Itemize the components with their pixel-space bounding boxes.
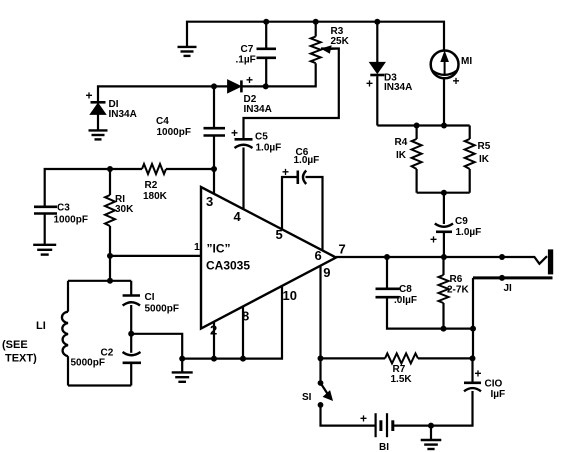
svg-text:+: + [366,77,373,91]
node: D2 cathode / C7 bottom [263,83,269,89]
node: M1 bottom [441,123,447,129]
node: C8 top on output [384,254,390,260]
capacitor C5 1.0uF (polarized) [235,138,253,141]
svg-text:1.5K: 1.5K [391,374,413,385]
svg-text:1.0µF: 1.0µF [294,155,320,166]
ground (below C3) [33,245,56,255]
diode D3 1N34A (points down) [370,63,385,73]
node: pin8 on rail [240,356,246,362]
svg-text:IN34A: IN34A [244,104,272,115]
wire: R1 top lead [109,169,111,195]
wire: pin 9 down to switch [319,266,321,381]
capacitor C1 5000pF [123,294,140,297]
wire: R4R5 top rail [377,124,469,126]
wire: R5 leads [469,126,471,140]
wire: tank bottom [68,384,131,386]
svg-text:4: 4 [234,209,242,224]
svg-text:TEXT): TEXT) [5,353,37,365]
svg-text:1.0µF: 1.0µF [456,227,482,238]
wire: C2 bottom lead [130,364,132,386]
svg-text:R2: R2 [145,180,158,191]
wire: R2 rail with C3 drop [45,169,142,206]
wire: C6 right to pin 6 [306,177,323,251]
wire: D3 cathode to R4R5 rail [376,76,378,125]
node: C4 bottom / R2 / pin3 [211,166,217,172]
capacitor C4 1000pF plates [204,127,226,130]
node: D3/top rail [374,19,380,25]
node: battery ground tap [428,423,434,429]
capacitor C9 1.0uF (polarized) [435,224,453,227]
svg-text:+: + [282,165,289,179]
wire: C4 bottom to pin 3 [213,136,215,194]
wire: jack sleeve heavy lead [473,276,553,279]
svg-text:1000pF: 1000pF [157,127,191,138]
node: C7/top rail [263,19,269,25]
svg-text:25K: 25K [331,36,350,47]
node: R4 top [414,123,420,129]
wire: R7 right lead [418,357,473,359]
wire: R6 bottom lead [442,303,444,329]
svg-text:2: 2 [210,323,217,338]
wire: R7 left lead from pin9 line [321,357,386,359]
svg-text:R5: R5 [478,141,491,152]
svg-text:SI: SI [302,392,312,403]
resistor R6 2.7K [439,275,449,303]
svg-text:+: + [430,233,437,247]
svg-text:9: 9 [323,265,330,280]
wire: jack sleeve drop [472,278,474,359]
wire: tank tap to ground rail [131,334,182,359]
resistor R1 30K [105,195,115,226]
node: tank top tap [107,278,113,284]
svg-text:”IC”: ”IC” [207,242,231,256]
svg-text:IK: IK [396,150,407,161]
svg-text:CI: CI [145,292,155,303]
resistor R4 1K [412,139,422,169]
node: C1/C2 junction [128,331,134,337]
wire: C5 to pin 4 [242,148,244,210]
svg-text:C5: C5 [255,132,268,143]
wire: C9 bottom lead [443,232,445,257]
wire: C9 top lead [443,193,445,224]
resistor R5 1K [465,139,475,169]
node: sleeve near jack [499,275,505,281]
node: R1 bottom / pin1 [107,253,113,259]
node: R7 left / pin9 [318,355,324,361]
svg-text:IK: IK [479,154,490,165]
svg-text:3: 3 [206,194,213,209]
svg-text:7: 7 [339,242,346,257]
capacitor C7 .1uF plates [257,47,277,50]
svg-text:1: 1 [194,241,200,253]
svg-text:.0IµF: .0IµF [394,295,417,306]
svg-text:1.0µF: 1.0µF [256,143,282,154]
capacitor C2 5000pF [123,352,141,355]
wire: pin 8 lead [242,307,244,359]
wire: L1 top lead [67,281,69,312]
svg-text:JI: JI [504,283,513,294]
svg-text:CA3035: CA3035 [206,259,250,273]
resistor R2 180K [142,164,166,174]
capacitor C10 1uF (polarized) [464,381,481,384]
node: output near jack [499,254,505,260]
svg-text:2-7K: 2-7K [447,285,469,296]
resistor R3 wiper arrow [322,46,331,53]
ground (below D1) [89,130,108,139]
op-amp U1 CA3035 triangle [201,187,336,329]
diode D1 1N34A (points up, cathode bar top) [91,101,106,104]
ground (battery rail) [421,440,442,449]
svg-text:C8: C8 [399,284,412,295]
wire: C7 bottom lead [265,59,267,87]
wire: M1 bottom lead [443,78,445,126]
svg-text:C4: C4 [156,116,169,127]
node: R3/top rail [313,19,319,25]
wire: D2 cathode to R3 bottom [243,63,316,86]
diode D2 1N34A (points right) [228,80,241,92]
node: R7 right / C10 top [470,355,476,361]
wire: R4 leads [416,126,418,140]
resistor R3 25K (pot body) [311,37,321,64]
node: pin2 on rail [211,356,217,362]
svg-text:+: + [453,74,460,88]
wire: L1 bottom lead [67,356,69,385]
svg-text:5: 5 [276,227,283,242]
svg-text:R4: R4 [395,137,408,148]
svg-text:BI: BI [379,442,389,452]
svg-text:C9: C9 [455,216,468,227]
svg-text:LI: LI [36,320,46,332]
svg-text:+: + [360,412,367,426]
ground (IC bottom rail) [172,372,193,381]
svg-text:+: + [246,73,253,87]
wire: pin 1 lead [110,255,201,257]
wire: battery to C10 bottom [394,391,473,426]
wire: C8 bottom to lower rail [387,298,473,329]
capacitor C8 .01uF plates [376,287,400,290]
node: C9/R6 on output [441,254,447,260]
svg-text:5000pF: 5000pF [71,358,105,369]
svg-text:+: + [231,126,238,140]
wire: IC bottom rail pins 2,8,10 [182,286,282,358]
svg-text:IN34A: IN34A [384,82,412,93]
wire: R3 wiper to C5 [244,49,339,139]
switch S1 [318,380,324,386]
wire: D1 to D2 anode segment [98,86,228,101]
wire: top supply rail from ground to meter [187,22,444,51]
svg-text:C7: C7 [241,44,254,55]
node: C4 top / D1-D2 [211,83,217,89]
meter M1 [431,51,459,79]
inductor L1 [62,312,68,357]
ground (top rail) [178,47,197,56]
svg-text:5000pF: 5000pF [145,304,179,315]
svg-text:C3: C3 [57,203,70,214]
node: lower rail corner [470,326,476,332]
wire: switch to battery bottom rail [321,408,375,426]
svg-text:180K: 180K [143,191,168,202]
svg-text:+: + [475,367,482,381]
wire: R4R5 bottom rail [417,192,470,194]
battery B1 [375,413,377,437]
wire: C1 bottom to C2 junction [130,305,132,353]
wire: R1 bottom lead [109,226,111,256]
svg-text:1000pF: 1000pF [54,215,88,226]
capacitor C6 1.0uF (polarized, horizontal) [296,171,299,185]
wire: R2 right lead [166,168,214,170]
resistor R7 1.5K [385,353,418,363]
wire: R6 top lead [442,257,444,275]
node: ground tap on IC rail [179,356,185,362]
wire: C8 top lead [386,257,388,288]
svg-text:IµF: IµF [491,389,506,400]
svg-text:CIO: CIO [485,379,503,390]
jack J1 body bar [548,249,553,274]
capacitor C3 1000pF plates [34,206,57,209]
wire: C4 top lead [213,86,215,127]
node: R1/R2/C3 rail [107,166,113,172]
wire: pin 5 to C6 left [282,177,297,230]
wire: pin 2 lead [213,322,215,359]
svg-text:6: 6 [315,248,322,263]
svg-text:30K: 30K [115,204,134,215]
svg-text:MI: MI [461,56,472,67]
wire: C10 top lead [471,358,473,382]
svg-text:(SEE: (SEE [2,339,28,351]
node: C9 top [441,190,447,196]
svg-text:8: 8 [242,309,249,324]
svg-text:10: 10 [283,288,297,303]
svg-text:R6: R6 [450,274,463,285]
svg-text:IN34A: IN34A [109,109,137,120]
svg-text:+: + [86,89,93,103]
wire: R1 junction down to tank [109,256,111,281]
wire: tank top [68,280,131,282]
wire: D3 top lead [376,22,378,63]
wire: C1 top lead [130,281,132,295]
svg-text:.1µF: .1µF [236,55,256,66]
wire: C7 top lead [265,22,267,48]
node: R6 bottom rail [441,326,447,332]
wire: R3 top lead [315,22,317,37]
wire: output rail pin7 to jack tip [336,256,547,264]
